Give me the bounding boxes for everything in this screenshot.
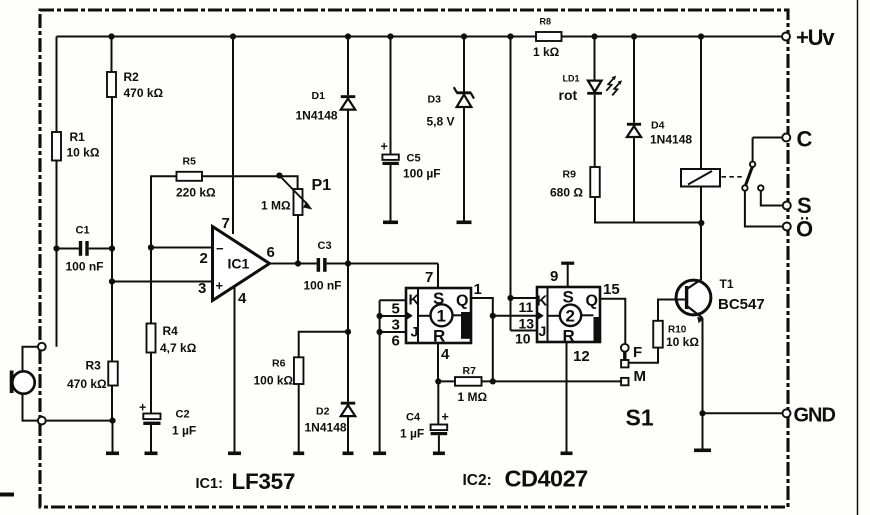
pin 6 IC1 output wire [267, 244, 317, 264]
svg-text:J: J [411, 324, 419, 340]
node terminal +Uv [782, 33, 790, 41]
pin 7 IC1 [222, 37, 234, 235]
resistor R2 [107, 72, 116, 97]
wire D4 branch [633, 37, 635, 223]
svg-text:470 kΩ: 470 kΩ [124, 86, 164, 100]
label +Uv [796, 25, 835, 50]
svg-text:IC1: IC1 [228, 256, 250, 272]
svg-text:K: K [409, 292, 420, 309]
svg-text:IC1:: IC1: [196, 476, 223, 492]
junction pin3 chain [377, 313, 383, 319]
junction K feed [507, 295, 513, 301]
svg-text:2: 2 [566, 307, 575, 326]
svg-text:J: J [539, 323, 547, 339]
resistor R10 [653, 321, 663, 348]
junction rail-KJfeed [507, 33, 513, 39]
ground K/J chain [373, 452, 386, 456]
svg-text:R10: R10 [668, 325, 687, 336]
pin 7 FF1 label [425, 269, 433, 286]
label C1 [66, 225, 104, 274]
junction R7-Q1 [490, 378, 496, 384]
svg-text:1N4148: 1N4148 [305, 421, 347, 435]
svg-text:R6: R6 [272, 358, 286, 370]
svg-text:5: 5 [392, 301, 400, 318]
label R5 [176, 156, 216, 200]
svg-text:100 nF: 100 nF [304, 279, 342, 293]
junction R pin-R7 [435, 378, 441, 384]
node terminal S [783, 202, 791, 210]
pin 1 FF1 wire [471, 281, 493, 316]
svg-text:1 MΩ: 1 MΩ [261, 199, 291, 213]
svg-text:C2: C2 [176, 409, 190, 421]
svg-text:470 kΩ: 470 kΩ [67, 377, 107, 391]
svg-text:12: 12 [573, 348, 590, 365]
svg-text:11: 11 [519, 299, 534, 315]
wire base [658, 300, 685, 321]
label Ö [796, 217, 813, 242]
label R9 [550, 169, 583, 200]
wire contact S [761, 191, 783, 206]
wire R4 chain [150, 248, 152, 414]
switch S1 blade [623, 352, 626, 360]
ground D2 [343, 452, 354, 456]
svg-text:P1: P1 [312, 177, 332, 194]
pin 3 FF1 wire [380, 316, 406, 334]
svg-text:K: K [537, 293, 548, 310]
svg-text:IC2:: IC2: [463, 472, 492, 489]
junction pin2 branch [148, 244, 154, 250]
switch S1 common square [621, 360, 628, 367]
node terminal GND [783, 409, 791, 417]
wire R7 node wires [438, 380, 621, 382]
svg-text:9: 9 [550, 268, 558, 285]
svg-text:S: S [797, 193, 812, 218]
pin 6 FF1 wire [380, 332, 406, 350]
label C [797, 127, 813, 152]
pin 12 FF2 wire (R) [567, 342, 590, 452]
flip-flop IC2a [406, 288, 471, 346]
svg-text:S: S [563, 288, 574, 307]
wire clock FF2 [493, 315, 537, 317]
junction output-P1 [295, 260, 301, 266]
wire R5 left leg [151, 176, 177, 247]
svg-text:BC547: BC547 [718, 296, 765, 313]
svg-text:D2: D2 [316, 406, 330, 418]
label S1 [626, 405, 654, 431]
wire contact O [745, 191, 783, 227]
junction rail-LED [591, 33, 597, 39]
node contact pivot top [0, 0, 1, 1]
ground C5 [383, 221, 398, 225]
svg-text:10 kΩ: 10 kΩ [67, 146, 100, 160]
wire R9 bottom [595, 197, 702, 223]
pin 15 FF2 wire (Q) [600, 281, 625, 344]
label R3 [67, 359, 107, 392]
svg-text:7: 7 [425, 269, 433, 286]
svg-text:R4: R4 [163, 324, 179, 338]
label D3 [427, 94, 455, 129]
label C4 [400, 410, 449, 441]
wire collector [688, 223, 701, 289]
junction rail-relay [698, 33, 704, 39]
svg-text:220 kΩ: 220 kΩ [176, 186, 216, 200]
ground R6 [293, 452, 304, 456]
pin 11 FF2 wire (K) [511, 298, 538, 315]
svg-text:2: 2 [200, 250, 208, 267]
svg-text:R: R [563, 327, 575, 346]
wire emitter ground stub [702, 413, 704, 448]
svg-text:7: 7 [222, 215, 230, 232]
label R8 [533, 17, 560, 60]
svg-text:100 µF: 100 µF [403, 167, 441, 181]
switch S1 M square [621, 378, 628, 385]
label R4 [160, 324, 197, 355]
ground C4 [433, 452, 445, 456]
svg-text:6: 6 [392, 333, 400, 350]
svg-text:100 kΩ: 100 kΩ [254, 374, 294, 388]
svg-text:3: 3 [392, 317, 400, 334]
wire relay coil top [700, 37, 702, 170]
junction rail-D3 [461, 33, 467, 39]
svg-text:3: 3 [198, 280, 206, 297]
label F [633, 344, 642, 361]
wire R2 branch [111, 37, 114, 421]
svg-text:13: 13 [519, 316, 535, 332]
junction rail-C5 [387, 33, 393, 39]
svg-text:LD1: LD1 [563, 74, 580, 84]
label T1 [718, 277, 765, 313]
caption IC1 type [196, 469, 296, 494]
svg-text:CD4027: CD4027 [505, 466, 589, 492]
svg-text:S: S [433, 289, 444, 308]
zener diode D3 [454, 87, 474, 107]
node terminal O [783, 223, 791, 231]
diode D2 (1N4148) [341, 402, 356, 416]
pin 4 FF1 wire [438, 343, 450, 381]
node mic bottom terminal [38, 417, 46, 425]
label S [797, 193, 812, 218]
svg-text:1 kΩ: 1 kΩ [533, 45, 560, 59]
svg-text:R: R [433, 327, 445, 346]
wire op-amp pin2 (-) input [151, 247, 213, 249]
label R6 [254, 358, 294, 388]
relay K1 coil [681, 169, 720, 187]
node mic top terminal [38, 343, 46, 351]
svg-text:15: 15 [603, 281, 620, 298]
junction C1 right [109, 245, 115, 251]
wire R3 bottom to ground [112, 421, 114, 452]
capacitor C1 [79, 241, 112, 256]
svg-text:10: 10 [515, 331, 531, 347]
label C2 [139, 401, 196, 438]
svg-text:1 µF: 1 µF [400, 427, 424, 441]
wire LED branch [594, 37, 596, 168]
svg-text:C5: C5 [407, 153, 421, 165]
svg-text:+: + [216, 278, 224, 293]
ground C2 [145, 452, 158, 456]
junction C1 left [53, 245, 59, 251]
label GND [794, 405, 836, 427]
wire contact C [753, 138, 783, 162]
svg-text:D4: D4 [651, 120, 665, 132]
label C3 [304, 240, 342, 293]
svg-text:4: 4 [441, 346, 450, 363]
svg-text:5,8 V: 5,8 V [427, 115, 455, 129]
junction R6 branch [345, 329, 351, 335]
pin 9 FF2 wire [550, 262, 574, 287]
wire K/J chain FF1 [379, 300, 381, 451]
label M [634, 368, 647, 385]
page column rule (right) [857, 0, 859, 515]
relay switch blade [742, 162, 763, 191]
wire R5 to P1 [202, 176, 298, 189]
ground emitter [694, 449, 711, 453]
resistor R8 [536, 32, 562, 41]
diode D1 (1N4148) [341, 95, 356, 109]
wire R6 branch [299, 332, 348, 452]
svg-text:1 MΩ: 1 MΩ [458, 390, 488, 404]
svg-text:R7: R7 [463, 365, 477, 377]
svg-text:R3: R3 [86, 359, 102, 373]
svg-text:D1: D1 [312, 90, 326, 102]
junction Q1-clock2 [490, 313, 496, 319]
junction C3-D1 line [345, 260, 351, 266]
node terminal C [782, 134, 790, 142]
pin 3 IC1 label [198, 280, 206, 297]
microphone M1 [10, 347, 42, 421]
svg-text:GND: GND [794, 405, 836, 427]
flip-flop IC2b [537, 287, 601, 346]
junction pin6 chain [377, 329, 383, 335]
wire FF2 K/J feed column [510, 37, 512, 331]
svg-text:1N4148: 1N4148 [650, 133, 692, 147]
svg-text:LF357: LF357 [232, 469, 296, 494]
capacitor C3 [317, 258, 438, 272]
wire C3 node to FF1 pin7 [437, 264, 439, 289]
wire C5 branch [390, 37, 392, 221]
svg-text:D3: D3 [428, 94, 442, 106]
resistor R6 [294, 357, 304, 384]
svg-text:R8: R8 [540, 17, 552, 27]
op-amp U1 IC1 [213, 227, 270, 301]
svg-text:F: F [633, 344, 642, 361]
LED LD1 [587, 76, 622, 96]
wire R10 bottom to S1 [629, 348, 658, 363]
svg-text:1 µF: 1 µF [172, 424, 196, 438]
ground IC1 pin4 [228, 452, 241, 456]
pin 10 FF2 wire (J) [511, 331, 538, 347]
transistor Q1 T1 BC547 [676, 280, 711, 315]
wire FF1 R to C4 [437, 381, 439, 424]
resistor R3 [108, 362, 118, 386]
wire emitter [688, 307, 704, 414]
caption IC2 type [463, 466, 589, 492]
svg-text:R9: R9 [563, 169, 577, 181]
label R1 [67, 130, 100, 160]
resistor R9 [590, 167, 600, 197]
junction rail-R2 [108, 33, 114, 39]
print artifact bottom-left [0, 493, 14, 497]
svg-text:S1: S1 [626, 405, 654, 431]
ground FF2 pin12 [561, 452, 573, 456]
wire +Uv top rail [57, 36, 787, 38]
pin 4 IC1 [235, 286, 248, 452]
resistor R5 [177, 172, 203, 181]
label D2 [305, 406, 347, 435]
svg-text:R5: R5 [183, 156, 197, 168]
svg-text:Q: Q [586, 293, 598, 310]
wire C1 left [57, 248, 80, 250]
label R10 [666, 325, 699, 350]
potentiometer P1 [279, 176, 312, 264]
label R2 [124, 70, 164, 100]
label LD1 [559, 74, 580, 104]
junction rail-pin7 [230, 33, 236, 39]
capacitor C2 (electrolytic) [143, 414, 160, 452]
wire relay coil bottom [700, 187, 702, 224]
svg-text:4: 4 [238, 290, 247, 307]
label P1 [261, 177, 331, 213]
svg-text:1N4148: 1N4148 [296, 109, 338, 123]
svg-text:6: 6 [267, 244, 275, 261]
svg-text:T1: T1 [720, 277, 734, 291]
label D4 [650, 120, 692, 147]
resistor R7 [455, 377, 482, 386]
svg-text:1: 1 [474, 281, 482, 298]
wire emitter to GND terminal [703, 412, 784, 414]
junction rail-D4 [631, 33, 637, 39]
pin 13 FF2 label [519, 316, 535, 332]
wire Q1 down to R7 node [492, 316, 494, 382]
diode D4 (1N4148) [627, 123, 641, 137]
ground R3 [106, 452, 119, 456]
svg-text:+: + [442, 410, 449, 424]
svg-text:R1: R1 [70, 130, 86, 144]
svg-text:C: C [797, 127, 813, 152]
svg-text:+: + [381, 140, 388, 154]
junction pin3 branch [109, 278, 115, 284]
svg-text:100 nF: 100 nF [66, 260, 104, 274]
junction rail-D1 [345, 33, 351, 39]
svg-text:R2: R2 [124, 70, 140, 84]
svg-text:+: + [139, 401, 146, 415]
svg-text:Ö: Ö [796, 217, 813, 242]
junction emitter-GND [699, 410, 705, 416]
svg-text:C4: C4 [406, 412, 421, 424]
wire D3 branch [463, 37, 465, 221]
svg-text:C3: C3 [318, 240, 332, 252]
svg-text:+Uv: +Uv [796, 25, 835, 50]
label D1 [296, 90, 338, 123]
wire op-amp pin3 (+) input [112, 281, 213, 283]
svg-text:10 kΩ: 10 kΩ [666, 335, 699, 349]
pin 2 IC1 label [200, 250, 208, 267]
switch S1 F contact [621, 344, 629, 352]
svg-text:rot: rot [559, 87, 578, 103]
pin 5 FF1 wire [380, 300, 406, 317]
ground D3 [457, 221, 472, 225]
wire left column (R1 branch) [56, 37, 58, 347]
svg-text:C1: C1 [76, 225, 90, 237]
wire mic bottom to R3 [46, 420, 113, 422]
svg-text:−: − [216, 241, 224, 256]
junction R3-mic wire [109, 418, 115, 424]
relay actuation dashed link [722, 176, 744, 178]
svg-text:Q: Q [456, 293, 468, 310]
junction P1 wiper node [276, 172, 282, 178]
resistor R4 [147, 324, 156, 353]
junction relay-R9-D4-collector [698, 220, 704, 226]
label C5 [381, 140, 441, 181]
label R7 [458, 365, 488, 404]
svg-text:4,7 kΩ: 4,7 kΩ [160, 341, 197, 355]
resistor R1 [52, 132, 61, 161]
wire D1 column [347, 37, 349, 452]
capacitor C4 (electrolytic) [431, 425, 448, 452]
svg-text:1: 1 [437, 307, 446, 326]
capacitor C5 (electrolytic) [382, 155, 398, 166]
svg-text:680 Ω: 680 Ω [550, 186, 583, 200]
svg-text:M: M [634, 368, 647, 385]
